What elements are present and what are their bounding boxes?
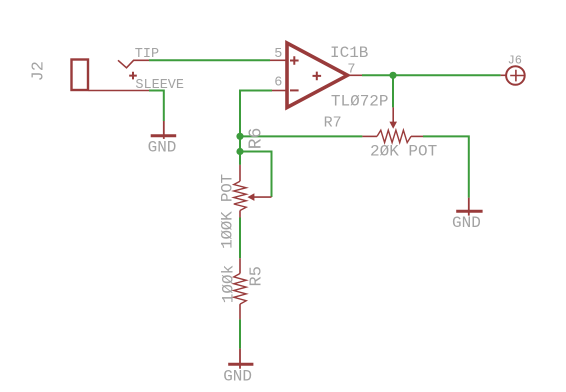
potentiometer R6 — [234, 165, 272, 218]
svg-text:J6: J6 — [508, 53, 522, 67]
svg-text:1ØØk: 1ØØk — [219, 265, 237, 303]
connector J6 — [501, 66, 525, 85]
wire R6 to R5 — [239, 218, 241, 259]
wire R7 right to ground — [423, 136, 469, 197]
pin 6 — [272, 90, 286, 92]
junction node at R6 top — [236, 133, 243, 140]
wire SLEEVE net — [149, 91, 164, 122]
op-amp minus input mark — [290, 89, 299, 91]
plus mark on jack — [129, 72, 137, 80]
wire R6 wiper loop — [240, 152, 272, 198]
pin 7 — [348, 74, 363, 76]
svg-text:J2: J2 — [30, 61, 49, 81]
op-amp U1 IC1B — [287, 43, 348, 108]
wire inverting input net — [240, 91, 272, 165]
svg-text:IC1B: IC1B — [330, 44, 368, 62]
potentiometer R7 — [362, 107, 423, 142]
svg-text:7: 7 — [347, 62, 355, 77]
wire to R7 left — [240, 135, 362, 137]
ground GND (sleeve) — [151, 121, 177, 139]
op-amp center plus mark — [313, 72, 322, 81]
svg-text:5: 5 — [274, 47, 282, 62]
ground GND (R7) — [456, 198, 482, 216]
pin SLEEVE — [89, 90, 149, 92]
wire R5 to ground — [239, 319, 241, 348]
svg-text:GND: GND — [148, 139, 177, 157]
wire output to R7 wiper — [392, 75, 394, 107]
svg-text:2ØK POT: 2ØK POT — [370, 143, 437, 161]
pin TIP contact — [118, 60, 149, 68]
wire output net — [362, 74, 501, 76]
svg-text:6: 6 — [274, 76, 282, 91]
svg-text:R7: R7 — [324, 115, 342, 132]
svg-text:R5: R5 — [248, 266, 267, 286]
R7 wiper arrow — [392, 107, 394, 123]
wire TIP net — [149, 59, 270, 61]
svg-text:1ØØK POT: 1ØØK POT — [219, 174, 237, 249]
svg-text:GND: GND — [223, 368, 252, 386]
R6 wiper arrow — [253, 196, 272, 198]
op-amp plus input mark — [290, 56, 299, 65]
svg-text:R6: R6 — [246, 128, 266, 150]
junction node at wiper tap — [236, 148, 243, 155]
svg-text:GND: GND — [452, 214, 481, 232]
junction node at output — [389, 72, 396, 79]
connector J2 — [72, 60, 89, 91]
pin 5 — [270, 59, 286, 61]
resistor R5 — [234, 258, 246, 319]
ground GND (R5) — [228, 349, 253, 369]
svg-text:TLØ72P: TLØ72P — [331, 92, 389, 110]
